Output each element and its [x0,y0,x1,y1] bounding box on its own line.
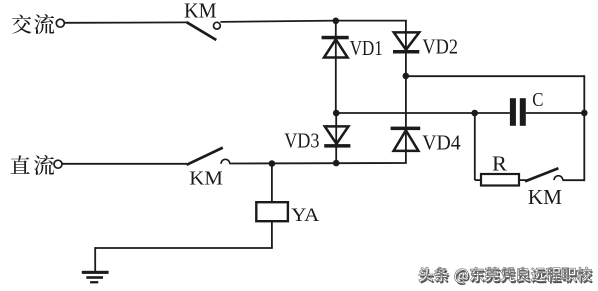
wire YA tap down [271,164,273,203]
switch KM (R branch) contact bump [554,176,563,180]
switch KM (DC line) contact bump [221,159,230,163]
wire KM to VD4 corner [229,162,406,165]
node junction dot (VD3 bottom) [333,160,340,167]
svg-text:VD1: VD1 [350,36,383,60]
node junction dot (R branch tap) [471,110,478,117]
wire to ground (horizontal) [95,247,273,249]
node A junction dot [333,18,340,25]
label 直流 (DC input) [11,155,55,175]
wire R branch drop [474,113,476,180]
svg-text:R: R [492,151,508,175]
label 交流 (AC input) [12,14,54,34]
diode VD3 [324,113,350,163]
svg-text:VD2: VD2 [422,34,458,58]
switch KM (R branch) blade [525,168,558,181]
relay coil YA [256,202,288,221]
diode VD2 [393,21,419,76]
ground symbol [82,271,109,284]
node B junction dot [403,73,410,80]
node junction dot (VD1/VD3 mid) [333,110,340,117]
svg-text:YA: YA [291,205,319,226]
diode VD1 [322,21,349,113]
wire resistor to KM blade [519,179,527,181]
diode VD4 [391,76,421,163]
switch KM (DC line) blade [187,148,223,165]
switch KM top contact hook [214,22,221,29]
switch KM top blade [187,22,217,40]
svg-text:VD3: VD3 [284,128,319,152]
svg-text:KM: KM [189,168,223,190]
wire node B to right rail [406,75,584,77]
node junction dot (right rail) [581,110,588,117]
wire KM contact to right rail [562,179,585,181]
node junction dot (YA tap) [269,160,276,167]
wire capacitor to right rail [526,112,585,114]
wire mid line left of capacitor [336,112,510,114]
svg-text:KM: KM [184,0,217,22]
watermark 头条@东莞凭良远程职校 [419,267,593,285]
svg-text:VD4: VD4 [422,131,461,155]
wire YA down [271,221,273,248]
wire corner to resistor [475,179,481,181]
wire ground drop [94,247,96,271]
svg-text:KM: KM [528,185,563,209]
capacitor C [510,98,526,126]
resistor R [481,174,519,186]
terminal AC [56,19,64,27]
terminal DC [54,160,62,168]
wire AC terminal to KM [65,21,188,23]
wire KM to node A [220,21,336,22]
wire DC terminal to KM [62,163,187,165]
wire right rail [583,75,585,181]
svg-text:C: C [532,89,543,111]
wire node A to VD2 corner [336,20,407,22]
